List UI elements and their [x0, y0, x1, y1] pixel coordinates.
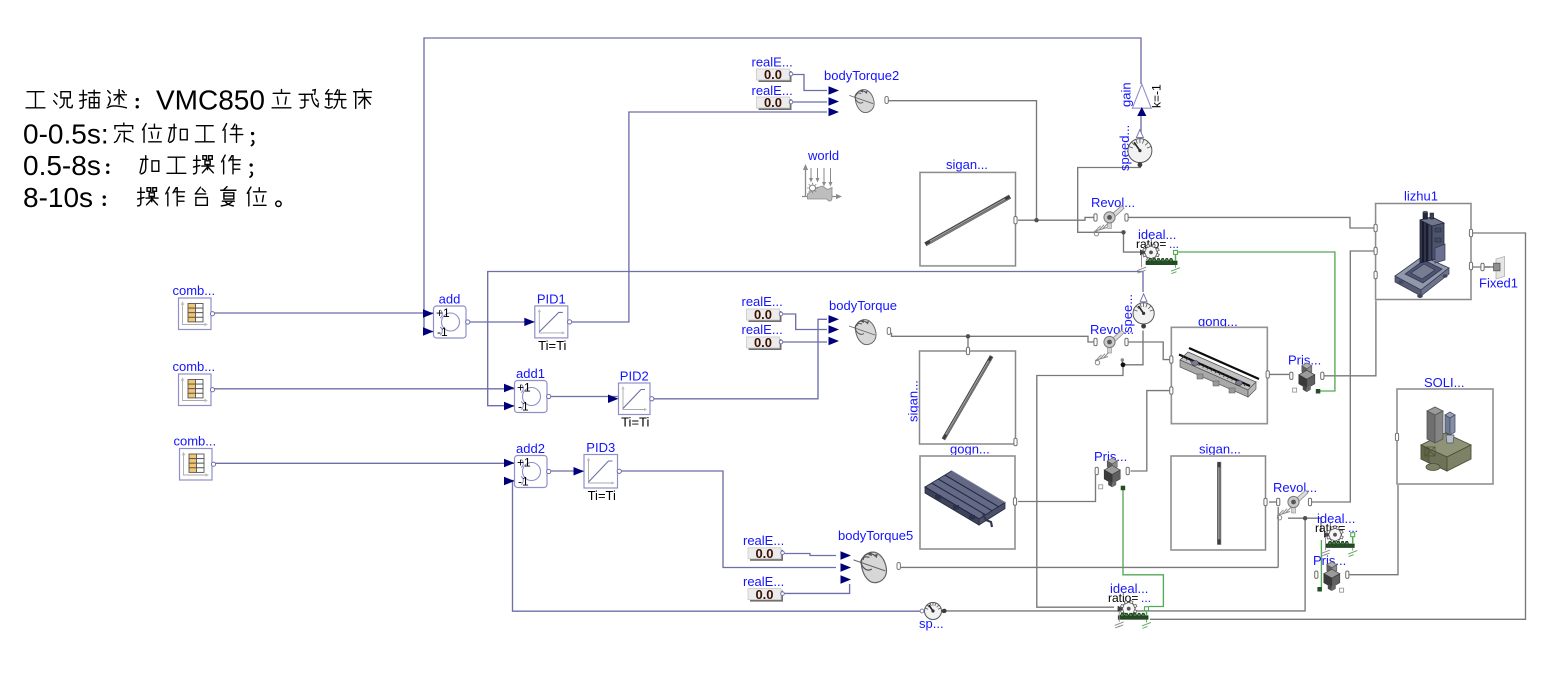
block realExpression value 0.0 — [743, 574, 784, 602]
block gain (Gain k=-1) — [1119, 82, 1164, 116]
svg-text:VMC850: VMC850 — [156, 85, 265, 116]
svg-text:SOLI...: SOLI... — [1424, 375, 1464, 390]
block PID1 (PID) — [524, 291, 571, 353]
svg-text:-1: -1 — [518, 400, 529, 414]
wire lizhu1 to Fixed1 — [1473, 266, 1490, 268]
block ideal... (IdealGearR2T) — [1108, 581, 1151, 628]
block comb3 (CombiTimeTable) — [174, 434, 217, 481]
block add (Add) — [423, 292, 470, 340]
wire sp sensor shaft to Revol3 support junction — [945, 518, 1305, 611]
wire Pris3 to SOLI — [1349, 441, 1398, 575]
svg-text:bodyTorque: bodyTorque — [829, 298, 897, 313]
block bodyTorque (BodyTorque) — [829, 298, 897, 347]
wire speed sensor mid shaft chain to ideal gear bottom — [1037, 331, 1143, 608]
wire add to PID1 — [468, 321, 535, 323]
svg-text:PID2: PID2 — [620, 369, 649, 384]
wire speed sensor to gain — [1140, 110, 1142, 135]
body gogn (saddle CAD box) — [920, 442, 1017, 550]
wire PID2 to bodyTorque in1 — [652, 319, 827, 399]
svg-text:+1: +1 — [517, 381, 531, 395]
block PID2 (PID) — [608, 369, 654, 430]
svg-text:Revol...: Revol... — [1090, 322, 1134, 337]
svg-text:gain: gain — [1119, 82, 1134, 107]
svg-text:lizhu1: lizhu1 — [1404, 189, 1438, 204]
wire realE4 to bodyTorque in3 — [781, 341, 827, 343]
svg-text:gogn...: gogn... — [950, 442, 990, 457]
block ideal... (IdealGearR2T) — [1136, 227, 1180, 274]
svg-text:world: world — [807, 148, 839, 163]
svg-text:0.0: 0.0 — [755, 546, 773, 561]
block add2 (Add) — [504, 441, 551, 489]
joint Revol... (Revolute) — [1090, 322, 1134, 353]
block realExpression value 0.0 — [742, 322, 783, 350]
joint Pris... (Prismatic) — [1094, 449, 1129, 490]
svg-text:0.0: 0.0 — [764, 67, 782, 82]
wire sigan3 to Revol3 — [1269, 501, 1276, 503]
svg-text:Revol...: Revol... — [1091, 195, 1135, 210]
wire Revol3 to lizhu1 frame — [1312, 251, 1374, 502]
joint Revol... (Revolute) — [1273, 480, 1317, 513]
wire junction to ideal gear2 shaft — [1288, 518, 1321, 532]
svg-text:bodyTorque5: bodyTorque5 — [838, 528, 913, 543]
svg-text:sigan...: sigan... — [946, 157, 988, 172]
svg-text:+1: +1 — [436, 306, 450, 320]
block bodyTorque2 (BodyTorque) — [824, 68, 899, 116]
block comb1 (CombiTimeTable) — [173, 283, 216, 330]
joint Pris... (Prismatic) — [1313, 553, 1349, 592]
svg-text:add1: add1 — [516, 366, 545, 381]
wire Revol1 to lizhu1 frame_a — [1129, 217, 1374, 228]
svg-text:0.0: 0.0 — [754, 335, 772, 350]
wire gogn to Pris2 frame_a — [1018, 475, 1096, 502]
sensor speed (top speed sensor) — [1117, 125, 1152, 171]
svg-text:Ti=Ti: Ti=Ti — [621, 415, 649, 430]
wire realE1 to bodyTorque2 in1 — [791, 75, 827, 91]
wire PID3 to bodyTorque5 in2 — [620, 471, 837, 568]
wire PID1 to bodyTorque2 in3 — [570, 112, 827, 322]
svg-text:bodyTorque2: bodyTorque2 — [824, 68, 899, 83]
svg-text:0.0: 0.0 — [764, 95, 782, 110]
svg-text:sigan...: sigan... — [1199, 442, 1241, 457]
svg-text:PID1: PID1 — [537, 291, 566, 306]
wire ideal gear2 rack to Pris3 axis — [1320, 540, 1322, 587]
wire bodyTorque5 output shaft — [901, 566, 1279, 568]
body lizhu1 (column CAD box) — [1374, 189, 1473, 300]
svg-text:Ti=Ti: Ti=Ti — [588, 488, 616, 503]
wire realE3 to bodyTorque in2 — [781, 314, 827, 330]
svg-text:PID3: PID3 — [586, 440, 615, 455]
svg-text:Ti=Ti: Ti=Ti — [538, 338, 566, 353]
svg-text:comb...: comb... — [173, 359, 216, 374]
block Fixed1 (Fixed frame) — [1479, 257, 1518, 291]
block realExpression value 0.0 — [743, 533, 784, 561]
wire speed sensor top shaft to ideal gear — [1078, 168, 1141, 253]
svg-text:0.0: 0.0 — [755, 587, 773, 602]
wire comb3 to add2 — [214, 462, 515, 464]
wire realE6 to bodyTorque5 in3 — [782, 584, 850, 593]
wire add1 to PID2 — [549, 396, 619, 398]
wire realE2 to bodyTorque2 in2 — [791, 101, 827, 103]
block realExpression value 0.0 — [752, 83, 793, 110]
svg-text:-1: -1 — [518, 475, 529, 489]
body gong (worktable CAD box) — [1170, 314, 1270, 424]
svg-text:Revol...: Revol... — [1273, 480, 1317, 495]
svg-text:sigan...: sigan... — [906, 380, 921, 422]
wire gain feedback loop to add — [424, 38, 1141, 332]
wire Revol2 to gong frame — [1129, 342, 1170, 360]
wire Revol2 support link — [1121, 360, 1123, 365]
svg-text:comb...: comb... — [173, 283, 216, 298]
wire add2 to PID3 — [549, 470, 584, 472]
node junction dots — [1034, 218, 1038, 222]
wire comb2 to add1 — [213, 388, 515, 390]
svg-text:-1: -1 — [437, 325, 448, 339]
description text block — [23, 85, 371, 214]
svg-text:0.0: 0.0 — [754, 307, 772, 322]
body sigan2 (ballscrew CAD box, Y axis) — [906, 347, 1018, 445]
wire bodyTorque2 output shaft — [889, 101, 1037, 221]
block realExpression value 0.0 — [752, 55, 793, 83]
wire Pris1 to lizhu1 frame — [1324, 275, 1376, 376]
svg-text:0.5-8s: 0.5-8s — [23, 150, 101, 181]
wire Pris2 axis to ideal gear3 rack — [1123, 490, 1163, 607]
svg-text:+1: +1 — [517, 456, 531, 470]
wire gong to Pris2 — [1131, 391, 1170, 471]
svg-text:0-0.5s:: 0-0.5s: — [23, 119, 109, 150]
block realExpression value 0.0 — [742, 294, 783, 322]
svg-text:8-10s: 8-10s — [23, 182, 93, 213]
wire realE5 to bodyTorque5 in1 — [782, 554, 836, 556]
svg-text:Fixed1: Fixed1 — [1479, 276, 1518, 291]
body SOLI (spindle CAD box) — [1395, 375, 1493, 484]
svg-text:add: add — [439, 292, 461, 307]
joint Pris... (Prismatic) — [1288, 353, 1324, 394]
svg-text:...: ... — [1141, 591, 1151, 605]
svg-text:ratio=: ratio= — [1108, 591, 1138, 605]
sensor sp (bottom speed sensor) — [919, 603, 946, 632]
wire speed sensor mid feedback to add1 — [488, 272, 1143, 406]
wire sp sensor feedback to add2 — [513, 481, 921, 612]
joint Revol... (Revolute) — [1091, 195, 1135, 228]
block comb2 (CombiTimeTable) — [173, 359, 216, 406]
wire gong to Pris1 — [1269, 373, 1289, 375]
wire lizhu1 to bottom rack loop — [1150, 233, 1526, 619]
wire sigan1 to Revol1 — [1018, 217, 1094, 220]
wire bodyTorque output shaft to Revol2 — [892, 333, 1094, 342]
svg-text:add2: add2 — [516, 441, 545, 456]
block PID3 (PID) — [574, 440, 622, 503]
wire junction to sigan2 top — [967, 336, 969, 347]
block bodyTorque5 (BodyTorque) — [838, 528, 913, 586]
sensor spee (middle speed sensor) — [1120, 294, 1154, 333]
block ideal... (IdealGearR2T) — [1315, 511, 1358, 557]
svg-text:k=-1: k=-1 — [1150, 84, 1164, 108]
block add1 (Add) — [504, 366, 551, 414]
wire ideal gear1 rack to Pris1 axis — [1177, 252, 1335, 391]
svg-text:comb...: comb... — [174, 434, 217, 449]
wire comb1 to add — [213, 312, 433, 314]
wire Revol3 axis down to bodyTorque5 shaft — [1277, 507, 1279, 567]
body sigan1 (ballscrew CAD box, X axis) — [920, 157, 1017, 266]
body sigan3 (ballscrew CAD box, Z axis) — [1171, 442, 1267, 551]
svg-text:...: ... — [1169, 237, 1179, 251]
block world (World frame) — [802, 148, 842, 201]
